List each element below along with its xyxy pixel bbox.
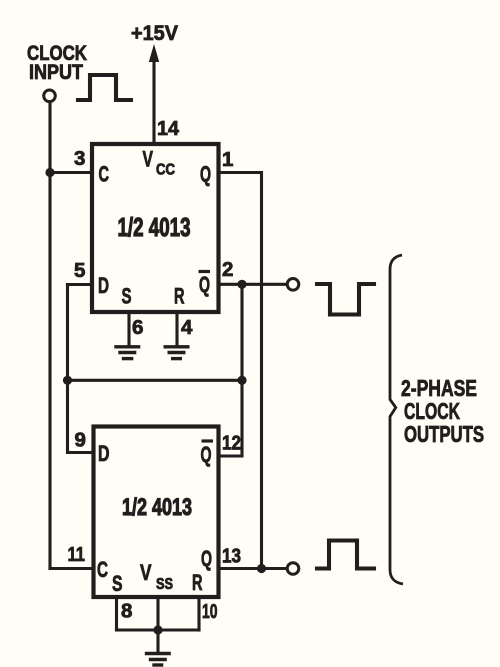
svg-text:11: 11 [68,543,86,566]
svg-text:V: V [140,560,152,585]
svg-text:9: 9 [75,429,86,452]
svg-text:C: C [97,557,108,582]
svg-text:4: 4 [181,316,193,339]
svg-text:INPUT: INPUT [29,60,83,84]
svg-text:14: 14 [157,117,180,140]
svg-text:S: S [112,571,123,596]
svg-text:Q: Q [201,442,212,467]
svg-text:OUTPUTS: OUTPUTS [404,421,484,447]
svg-text:D: D [98,273,109,298]
svg-text:1/2 4013: 1/2 4013 [122,494,192,521]
svg-text:10: 10 [202,600,218,623]
svg-text:6: 6 [132,316,143,339]
svg-text:CC: CC [156,162,175,179]
svg-text:V: V [143,147,154,172]
svg-text:D: D [98,441,110,466]
svg-text:1/2 4013: 1/2 4013 [118,214,191,242]
svg-text:3: 3 [74,147,85,170]
svg-text:2: 2 [222,258,233,281]
svg-text:S: S [122,284,132,309]
svg-text:+15V: +15V [131,21,179,45]
svg-text:R: R [192,570,203,595]
svg-text:C: C [99,162,110,187]
svg-text:13: 13 [222,545,241,568]
svg-text:Q: Q [199,272,210,297]
svg-text:8: 8 [121,600,132,623]
svg-text:5: 5 [74,259,85,282]
svg-text:1: 1 [222,148,233,171]
svg-text:Q: Q [200,162,211,187]
svg-text:12: 12 [222,432,241,455]
svg-text:SS: SS [156,576,173,593]
svg-text:Q: Q [201,546,212,571]
svg-text:R: R [174,284,185,309]
